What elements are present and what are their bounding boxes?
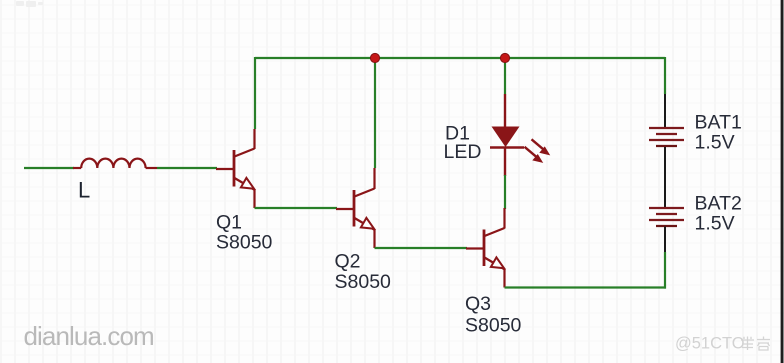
wire: Q1 emitter to Q2 base xyxy=(255,207,338,209)
svg-text:Q1: Q1 xyxy=(216,211,242,233)
battery BAT2 xyxy=(649,208,684,226)
wire: Q2 emitter to Q3 base xyxy=(375,247,468,249)
inductor L xyxy=(73,159,157,168)
svg-text:S8050: S8050 xyxy=(465,314,522,336)
transistor Q1 S8050 xyxy=(216,129,255,208)
diode D1 LED xyxy=(490,94,524,176)
svg-text:1.5V: 1.5V xyxy=(695,132,735,154)
svg-text:BAT1: BAT1 xyxy=(695,112,742,134)
transistor Q3 S8050 xyxy=(466,208,505,288)
wire: battery top drop xyxy=(664,57,666,94)
node junction at Q2 collector xyxy=(370,53,379,62)
transistor Q2 S8050 xyxy=(336,168,375,248)
svg-text:dianlua.com: dianlua.com xyxy=(24,321,154,351)
svg-text:@51CTO: @51CTO xyxy=(675,335,745,353)
LED emission arrow lower xyxy=(525,147,543,162)
svg-text:Q3: Q3 xyxy=(465,293,491,315)
svg-text:L: L xyxy=(78,178,90,203)
wire: Q3 emitter bottom rail xyxy=(505,286,667,288)
battery BAT1 xyxy=(649,94,684,146)
svg-text:S8050: S8050 xyxy=(335,271,392,293)
wire: LED branch drop xyxy=(504,57,506,94)
svg-text:Q2: Q2 xyxy=(335,251,361,273)
node junction at LED branch xyxy=(500,53,509,62)
LED emission arrow upper xyxy=(532,139,550,154)
wire: between batteries xyxy=(664,147,666,208)
watermark CJK glyph 1 xyxy=(741,337,754,351)
svg-text:LED: LED xyxy=(444,141,482,163)
svg-text:S8050: S8050 xyxy=(216,232,273,254)
wire: inductor to Q1 base xyxy=(157,167,217,169)
svg-text:1.5V: 1.5V xyxy=(695,213,735,235)
wire: top rail xyxy=(255,57,665,59)
wire: battery bottom lead xyxy=(664,227,666,254)
wire: left input horizontal xyxy=(24,167,74,169)
svg-text:BAT2: BAT2 xyxy=(695,192,742,214)
watermark CJK glyph 2 xyxy=(757,337,770,351)
wire: battery bottom drop to rail xyxy=(664,252,666,289)
right edge border line xyxy=(781,0,784,363)
wire: Q2 collector riser xyxy=(374,57,376,168)
wire: Q1 collector riser xyxy=(254,57,256,129)
wire: LED cathode to Q3 collector xyxy=(504,175,506,209)
